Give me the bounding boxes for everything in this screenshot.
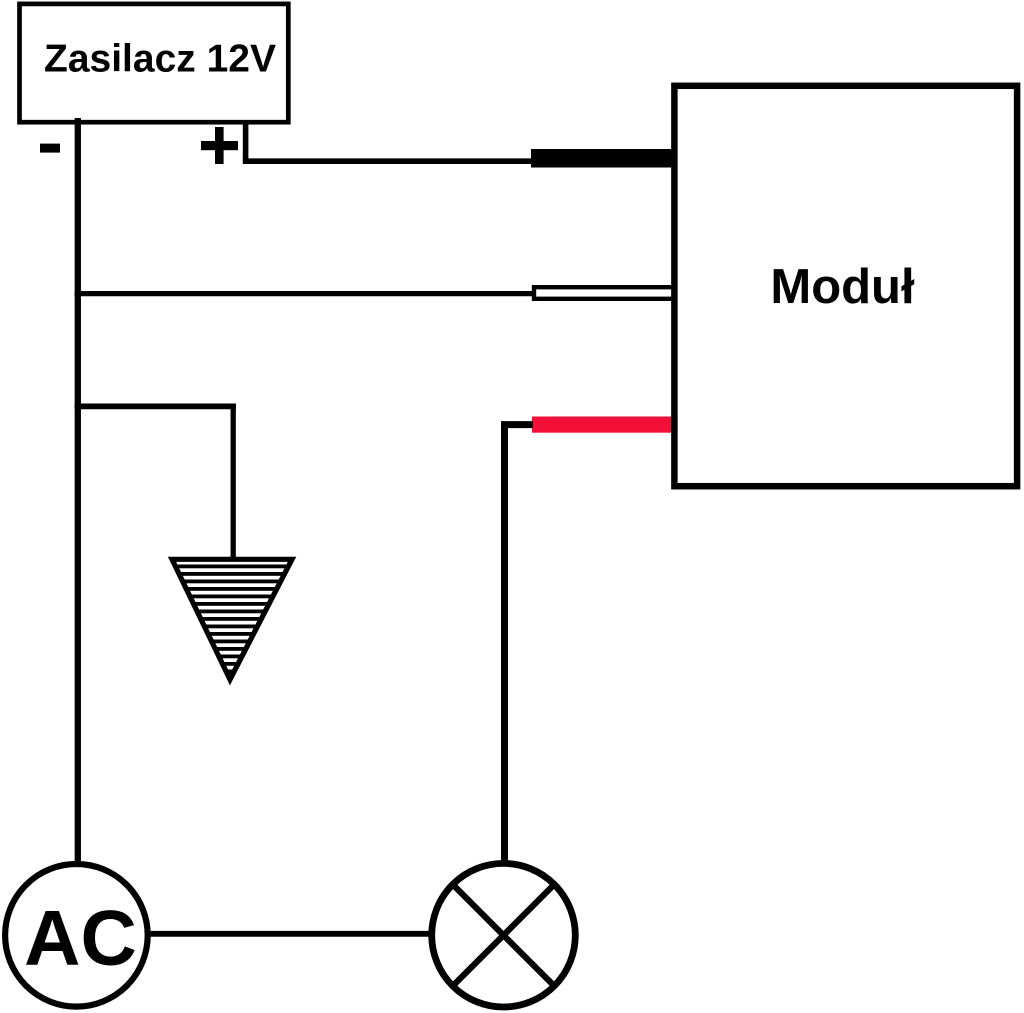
wire: vertical drop to lamp <box>501 421 508 862</box>
module box U1 "Modul" <box>674 86 1017 486</box>
wire: white (hollow) wire into Modul <box>534 287 674 299</box>
terminal label "-" (minus) <box>40 144 60 153</box>
wire: plus terminal vertical segment <box>243 120 249 161</box>
wire: AC source to lamp <box>146 931 430 937</box>
power supply box PS1 "Zasilacz 12V" <box>20 4 289 122</box>
AC source G1 (circle) <box>5 864 148 1007</box>
svg-text:Zasilacz 12V: Zasilacz 12V <box>44 38 276 81</box>
wire: red wire into Modul <box>532 417 672 433</box>
wire: short horizontal from lamp wire to red wire <box>502 421 534 428</box>
wire: branch from minus wire toward ground <box>75 403 236 409</box>
svg-text:AC: AC <box>24 894 137 982</box>
wire: branch from minus wire to white wire <box>75 291 534 296</box>
svg-text:Moduł: Moduł <box>770 260 915 314</box>
wire: minus terminal vertical down to AC source <box>75 118 81 866</box>
terminal label "+" (plus) <box>201 127 238 164</box>
wire: vertical drop to ground symbol <box>231 404 236 560</box>
ground symbol (hatched triangle) <box>172 559 292 679</box>
wire: plus terminal horizontal to thick black wire <box>243 158 533 164</box>
lamp L1 (circle with X) <box>432 863 576 1007</box>
wire: thick black wire into Modul <box>531 149 672 168</box>
